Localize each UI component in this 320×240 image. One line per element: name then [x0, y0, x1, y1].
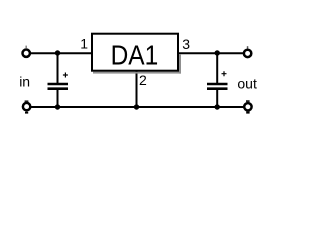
svg-text:2: 2: [139, 72, 147, 88]
svg-text:3: 3: [182, 36, 190, 52]
svg-text:in: in: [19, 74, 30, 90]
svg-text:out: out: [237, 75, 257, 91]
svg-text:1: 1: [80, 36, 88, 52]
svg-text:DA1: DA1: [111, 39, 159, 71]
